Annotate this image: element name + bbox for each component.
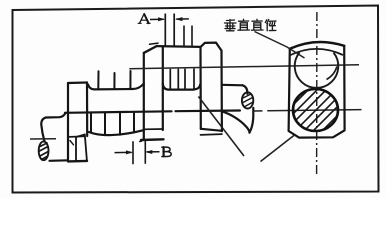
- web 3 right edge: [220, 51, 223, 132]
- right stub end corner: [243, 85, 248, 94]
- web 2 foot bottom edge: [141, 138, 164, 141]
- web 2 top chamfer: [144, 46, 157, 53]
- web 2 left edge: [143, 53, 145, 139]
- web 1 foot inner vertical: [75, 137, 77, 161]
- web 1 top edge: [68, 81, 87, 84]
- web 3 bottom second edge: [201, 133, 222, 136]
- leader line from label to section: [255, 32, 305, 59]
- web 1 foot notch line: [70, 135, 85, 138]
- lower journal horizontal centerline: [254, 110, 362, 111]
- journal 1 / lower shaft long bottom edge: [65, 111, 240, 113]
- char 垂: [225, 20, 237, 31]
- section view outline (obround): [289, 42, 345, 138]
- left stub shaft top edge: [46, 113, 66, 118]
- section leader diagonal (to section view): [261, 135, 295, 161]
- journal 1 lower surface ticks: [91, 112, 134, 135]
- dimension A label: [138, 14, 150, 23]
- section top circle (main journal): [295, 53, 339, 88]
- right stub end lower curve: [250, 108, 254, 133]
- dimension B label: [162, 147, 171, 156]
- figure outer border: [13, 6, 379, 193]
- journal 1 top edge: [88, 84, 144, 90]
- web 2 chamfer face second line: [150, 43, 159, 44]
- worn-profile arc: [290, 49, 344, 56]
- hatch lines: [286, 82, 347, 140]
- dimension B left-pointing arrow: [147, 151, 160, 153]
- web 2 foot inner line: [144, 128, 163, 130]
- dimension A left-pointing arrow: [176, 18, 189, 20]
- char 直: [238, 19, 250, 30]
- web 3 top edge: [201, 43, 222, 51]
- pin top witness ticks: [184, 26, 192, 47]
- dimension A extension lines: [165, 14, 174, 47]
- web 2 right edge: [162, 48, 164, 130]
- dimension B extension lines: [133, 141, 145, 164]
- left stub end face ellipse (hatched): [39, 141, 49, 160]
- left stub shaft left edge: [41, 118, 46, 142]
- web 1 right edge: [86, 83, 88, 137]
- crank pin bottom edge: [163, 84, 201, 90]
- crank pin horizontal centerline: [129, 65, 359, 69]
- web 1 foot side face top: [76, 134, 85, 137]
- web 3 bottom edge: [201, 129, 222, 131]
- web 1 foot bottom edge: [68, 160, 87, 163]
- right stub lower contour: [222, 111, 250, 132]
- right stub journal top edge: [222, 84, 243, 87]
- dimension A right-pointing arrow: [150, 18, 164, 20]
- left stub end face hatch: [40, 143, 49, 160]
- section leader diagonal (from pin to section): [198, 97, 244, 157]
- web 1 foot shade tick: [70, 141, 74, 145]
- worn circle inner arc fragment: [327, 67, 337, 80]
- section vertical dash-dot centerline: [316, 12, 318, 175]
- web 2 foot corner curl: [140, 139, 144, 142]
- web 1 foot side face right edge: [85, 134, 87, 160]
- journal 1 lower arc: [89, 130, 144, 135]
- web 3 left edge: [199, 47, 202, 129]
- dimension B right-pointing arrow: [115, 151, 132, 153]
- crank pin top edge: [157, 45, 201, 48]
- left stub shaft bottom edge: [50, 159, 69, 162]
- right stub end face ellipse (hatched): [242, 92, 253, 108]
- char 直 (second): [252, 19, 264, 30]
- crank axis centerline (left stub): [30, 138, 56, 140]
- right stub end face hatch: [242, 95, 253, 108]
- char 徑: [265, 20, 276, 31]
- web 1 left edge: [67, 83, 69, 161]
- crank pin surface ticks: [170, 69, 194, 89]
- journal 1 upper surface ticks: [98, 71, 130, 89]
- label text 垂直直徑 (drawn strokes): [225, 19, 277, 31]
